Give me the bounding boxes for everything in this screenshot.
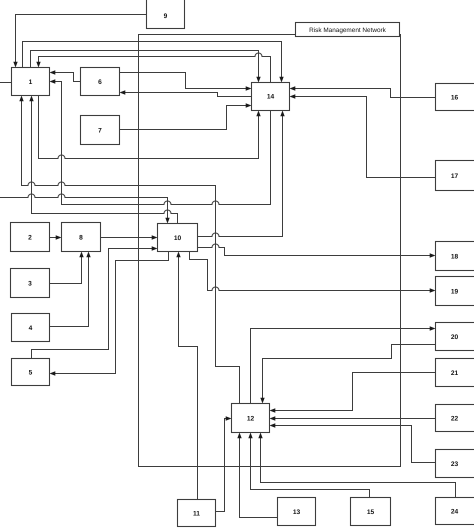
arrowhead 10 into 5 right [50, 371, 56, 375]
svg-text:21: 21 [451, 370, 459, 377]
arrowhead 8 into 10 left [152, 235, 158, 239]
wire 10 to 19 [190, 252, 431, 291]
arrowhead into 14 bottom x282 [280, 111, 284, 117]
svg-text:14: 14 [267, 94, 275, 101]
box 8 [62, 223, 101, 252]
box 13 [278, 498, 316, 526]
svg-text:17: 17 [451, 173, 459, 180]
arrowhead 5 into 10 left [152, 246, 158, 250]
arrowhead 11 into 12 left [226, 416, 232, 420]
box 5 [12, 359, 50, 386]
wire 22 to 12 right [276, 418, 436, 420]
arrowhead 4 into 8 bottom [86, 252, 90, 258]
svg-text:5: 5 [29, 370, 33, 377]
wire 11 to 12 left [216, 419, 227, 512]
arrowhead 6 into 1 right [50, 70, 56, 74]
box 9 [147, 0, 185, 29]
arrowhead into 20 left [430, 326, 436, 330]
risk management network label box [296, 23, 400, 37]
wire 20 to 12 top [263, 345, 436, 399]
svg-text:9: 9 [164, 13, 168, 20]
wire 3 to 8 [50, 257, 82, 284]
wire 8 to 10 [101, 237, 153, 239]
wire 21 to 12 right [276, 373, 436, 411]
svg-text:16: 16 [451, 95, 459, 102]
arrowhead 14 into 1 top [36, 62, 40, 68]
box 6 [81, 68, 120, 96]
wire 24 to 12 bottom [261, 438, 456, 498]
arrowhead 11 into 10 bottom [176, 252, 180, 258]
wire 1 left to canvas edge [0, 82, 12, 84]
svg-text:6: 6 [98, 79, 102, 86]
box 19 [436, 277, 474, 306]
svg-text:1: 1 [29, 79, 33, 86]
arrowhead into 14 right y88 [290, 86, 296, 90]
svg-text:4: 4 [29, 325, 33, 332]
box 15 [351, 498, 391, 526]
box 18 [436, 242, 474, 271]
wire 9 to 1 [16, 15, 147, 63]
arrowhead into 14 top x258 [256, 77, 260, 83]
wire 10 bottom to 5 right [56, 252, 169, 374]
arrowhead 21 into 12 right [270, 408, 276, 412]
box 17 [436, 161, 474, 191]
wire 5 top to 10 left [32, 249, 153, 359]
wire 14 to 6 [124, 93, 252, 97]
svg-text:15: 15 [367, 509, 375, 516]
arrowhead into 14 top x281 [279, 77, 283, 83]
svg-text:23: 23 [451, 461, 459, 468]
wire 12 top to 20 [251, 329, 431, 404]
arrowhead 15 into 12 bottom [248, 433, 252, 439]
risk management network boundary rectangle [139, 35, 401, 467]
svg-text:13: 13 [293, 509, 301, 516]
svg-text:8: 8 [79, 235, 83, 242]
arrowhead into 14 bottom x258 [256, 111, 260, 117]
arrowhead 20 into 12 top [260, 398, 264, 404]
wire 1 to 14 via top y50 [31, 51, 259, 78]
box 22 [436, 405, 474, 432]
arrowhead 9 into 1 top [13, 62, 17, 68]
arrowhead 10 into 1 bottom [29, 96, 33, 102]
box 10 [158, 224, 198, 252]
wire 7 to 14 left [120, 106, 248, 130]
svg-text:3: 3 [28, 281, 32, 288]
wire 10 to 14 bottom [198, 116, 283, 237]
box 24 [436, 498, 474, 525]
arrowhead into 6 right [120, 90, 126, 94]
arrowhead 3 into 8 bottom [79, 252, 83, 258]
wire 11 top to 10 bottom [179, 258, 198, 500]
arrowhead into 14 left y105 [246, 103, 252, 107]
svg-text:11: 11 [193, 511, 200, 518]
wire 17 to 14 right [295, 97, 436, 178]
box 11 [178, 500, 216, 527]
wire 6 to 14 left [120, 73, 248, 89]
wire canvas left edge to 10 top [0, 194, 168, 219]
arrowhead 13 into 12 bottom [237, 433, 241, 439]
wire 4 to 8 [50, 257, 89, 327]
svg-text:20: 20 [451, 334, 459, 341]
arrowhead into 18 left [430, 253, 436, 257]
svg-text:10: 10 [174, 235, 182, 242]
wire 1 bottom to 14 bottom [39, 96, 259, 159]
svg-text:19: 19 [451, 289, 459, 296]
box 2 [11, 223, 50, 252]
wire 12 top to 1 bottom [22, 101, 240, 404]
arrowhead 14 into 1 right [50, 79, 56, 83]
box 16 [436, 84, 474, 111]
svg-text:24: 24 [451, 509, 459, 516]
wire 14 bottom to 1 right edge [54, 82, 271, 205]
wire 10 top to 1 bottom [32, 101, 178, 224]
wire 10 to 18 [198, 244, 431, 256]
arrowhead into 10 top [165, 218, 169, 224]
wire 6 to 1 [54, 73, 81, 82]
box 7 [81, 116, 120, 145]
box 20 [436, 323, 474, 351]
arrowhead into 14 left y88 [246, 86, 252, 90]
svg-text:Risk Management Network: Risk Management Network [309, 27, 387, 34]
arrowhead 24 into 12 bottom [258, 433, 262, 439]
box 23 [436, 450, 474, 478]
arrowhead into 19 left [430, 288, 436, 292]
box 3 [11, 269, 50, 298]
box 14 [252, 83, 290, 111]
wire 23 to 12 right [276, 426, 436, 463]
box 21 [436, 359, 474, 387]
arrowhead 23 into 12 right [270, 423, 276, 427]
box 4 [12, 314, 50, 342]
svg-text:7: 7 [98, 128, 102, 135]
wire 1 to 14 via top y41 [23, 42, 282, 78]
box 1 [12, 68, 50, 96]
arrowhead 22 into 12 right [270, 416, 276, 420]
wire 16 to 14 right [295, 89, 436, 98]
arrowhead 12 into 1 bottom [19, 96, 23, 102]
svg-text:22: 22 [451, 416, 459, 423]
wire 15 to 12 bottom [251, 438, 370, 498]
svg-text:18: 18 [451, 254, 459, 261]
box 12 [232, 404, 270, 433]
wire 14 to 1 via top y56 [39, 53, 271, 82]
wire 2 to 8 [50, 237, 57, 239]
arrowhead into 8 left [56, 235, 62, 239]
wire 13 to 12 bottom [240, 438, 278, 518]
arrowhead into 14 right y96 [290, 94, 296, 98]
svg-text:12: 12 [247, 416, 255, 423]
svg-text:2: 2 [28, 235, 32, 242]
